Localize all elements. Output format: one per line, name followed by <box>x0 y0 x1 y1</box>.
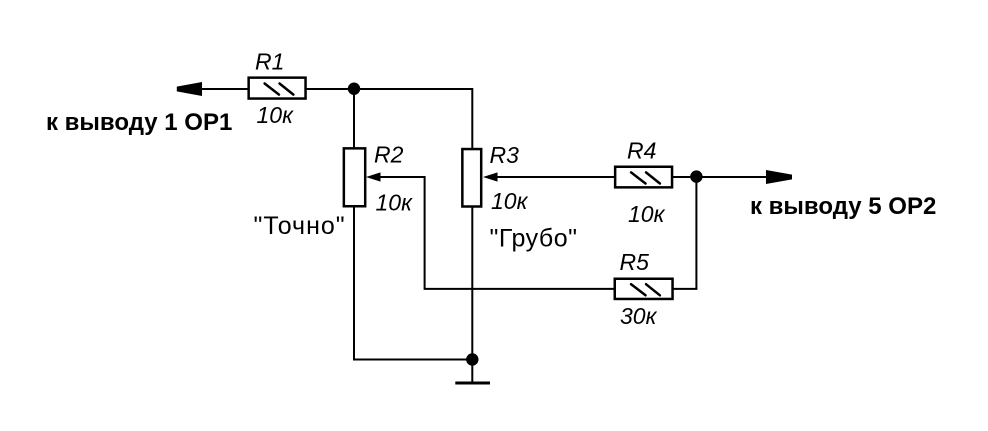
svg-text:"Грубо": "Грубо" <box>490 225 578 253</box>
svg-text:R5: R5 <box>620 249 650 275</box>
svg-text:R4: R4 <box>627 138 656 164</box>
svg-text:"Точно": "Точно" <box>254 212 346 240</box>
svg-text:к выводу 1 ОР1: к выводу 1 ОР1 <box>46 109 232 136</box>
svg-text:30к: 30к <box>620 303 658 329</box>
svg-text:10к: 10к <box>628 201 666 227</box>
svg-text:10к: 10к <box>491 188 529 214</box>
svg-text:R3: R3 <box>490 142 520 168</box>
svg-text:R2: R2 <box>374 142 404 168</box>
svg-text:к выводу 5 ОР2: к выводу 5 ОР2 <box>750 193 936 220</box>
svg-text:10к: 10к <box>257 102 295 128</box>
svg-text:R1: R1 <box>255 49 284 75</box>
svg-text:10к: 10к <box>376 190 414 216</box>
